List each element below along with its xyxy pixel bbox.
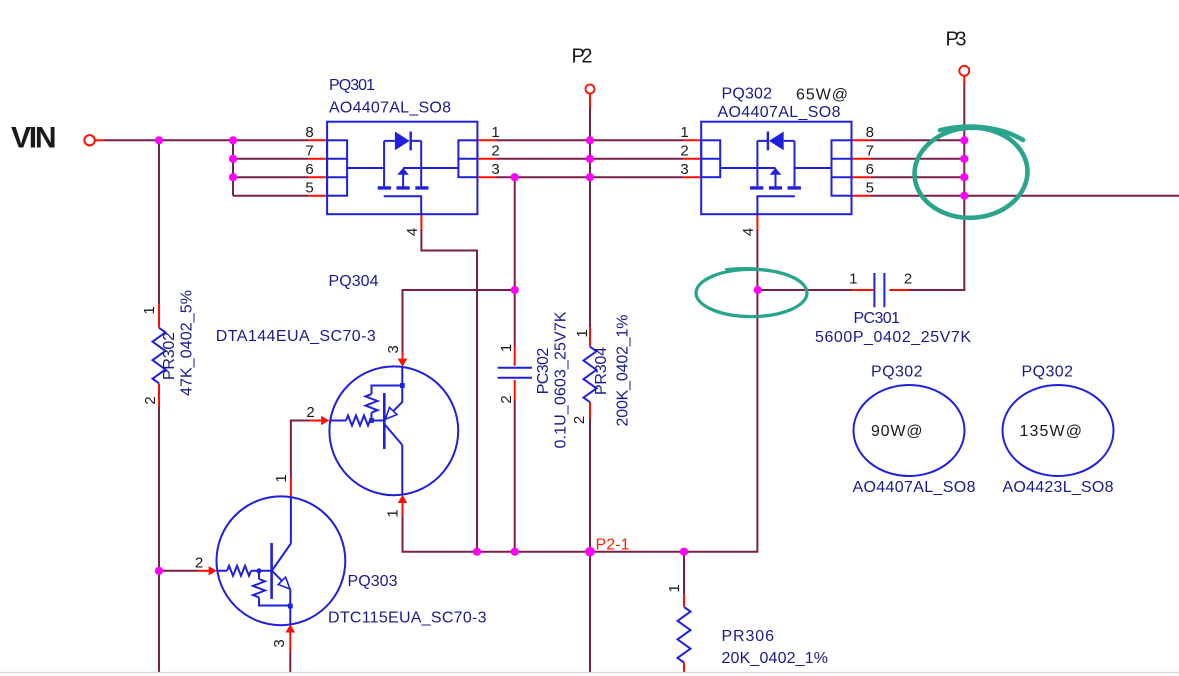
svg-text:2: 2 [195, 555, 203, 572]
svg-text:6: 6 [866, 161, 874, 178]
svg-text:1: 1 [666, 584, 683, 592]
svg-text:PQ301: PQ301 [329, 77, 375, 94]
svg-text:1: 1 [491, 124, 499, 141]
svg-text:3: 3 [385, 345, 402, 353]
svg-text:135W@: 135W@ [1020, 423, 1083, 440]
svg-text:PQ302: PQ302 [871, 364, 923, 381]
svg-text:5: 5 [866, 179, 874, 196]
svg-text:47K_0402_5%: 47K_0402_5% [179, 290, 196, 396]
svg-text:1: 1 [849, 271, 857, 288]
svg-text:8: 8 [866, 124, 874, 141]
svg-text:DTC115EUA_SC70-3: DTC115EUA_SC70-3 [328, 609, 487, 626]
svg-text:PQ302: PQ302 [1022, 364, 1074, 381]
svg-text:PR304: PR304 [593, 347, 610, 395]
svg-text:3: 3 [271, 639, 288, 647]
svg-text:5600P_0402_25V7K: 5600P_0402_25V7K [815, 329, 971, 346]
svg-text:AO4407AL_SO8: AO4407AL_SO8 [329, 99, 451, 116]
svg-text:3: 3 [491, 161, 499, 178]
svg-text:7: 7 [305, 142, 313, 159]
svg-text:PQ303: PQ303 [348, 573, 398, 590]
svg-text:2: 2 [498, 395, 515, 403]
svg-text:4: 4 [404, 228, 421, 236]
svg-text:AO4407AL_SO8: AO4407AL_SO8 [853, 479, 976, 496]
svg-text:P3: P3 [946, 28, 967, 50]
svg-text:VIN: VIN [11, 121, 57, 154]
svg-text:2: 2 [142, 396, 159, 404]
svg-text:65W@: 65W@ [796, 87, 848, 104]
svg-text:2: 2 [680, 142, 688, 159]
svg-text:AO4423L_SO8: AO4423L_SO8 [1003, 479, 1114, 496]
svg-text:7: 7 [866, 142, 874, 159]
svg-text:1: 1 [385, 509, 402, 517]
svg-text:2: 2 [306, 404, 314, 421]
svg-text:PQ302: PQ302 [722, 85, 773, 102]
svg-text:1: 1 [574, 329, 591, 337]
svg-text:90W@: 90W@ [871, 423, 923, 440]
svg-text:2: 2 [571, 416, 588, 424]
svg-text:1: 1 [141, 306, 158, 314]
svg-text:6: 6 [305, 161, 313, 178]
svg-text:20K_0402_1%: 20K_0402_1% [722, 650, 829, 667]
svg-text:1: 1 [273, 474, 290, 482]
svg-text:1: 1 [498, 344, 515, 352]
svg-text:1: 1 [680, 124, 688, 141]
svg-text:AO4407AL_SO8: AO4407AL_SO8 [718, 104, 841, 121]
svg-text:0.1U_0603_25V7K: 0.1U_0603_25V7K [553, 311, 570, 448]
svg-text:PC301: PC301 [854, 310, 901, 327]
svg-text:PC302: PC302 [535, 348, 552, 395]
svg-text:PR302: PR302 [161, 332, 178, 380]
svg-text:PQ304: PQ304 [329, 273, 379, 290]
svg-text:200K_0402_1%: 200K_0402_1% [615, 315, 632, 427]
svg-text:2: 2 [904, 271, 912, 288]
svg-text:P2: P2 [572, 45, 593, 67]
svg-text:P2-1: P2-1 [596, 537, 630, 554]
svg-text:3: 3 [680, 161, 688, 178]
svg-text:DTA144EUA_SC70-3: DTA144EUA_SC70-3 [216, 328, 376, 345]
svg-text:8: 8 [305, 124, 313, 141]
svg-text:PR306: PR306 [722, 628, 775, 645]
svg-text:4: 4 [740, 228, 757, 236]
svg-text:5: 5 [305, 179, 313, 196]
svg-text:2: 2 [491, 142, 499, 159]
